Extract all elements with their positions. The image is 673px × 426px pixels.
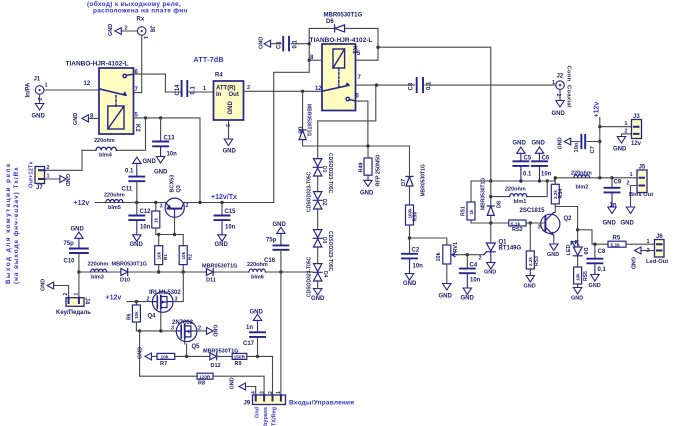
diode D12 MBR0530T1G: [210, 353, 217, 360]
svg-text:J1: J1: [34, 77, 41, 83]
connector J3 12v: [600, 127, 632, 137]
svg-text:C12: C12: [140, 209, 152, 215]
svg-text:1n: 1n: [246, 325, 253, 331]
+12v vertical wire to bus: [599, 118, 601, 178]
K2 pin7 stub: [134, 92, 142, 94]
svg-text:C9: C9: [614, 180, 622, 186]
svg-text:GND: GND: [439, 294, 453, 300]
svg-text:D10: D10: [120, 278, 130, 284]
svg-text:2SC1815: 2SC1815: [520, 208, 546, 214]
svg-text:J7: J7: [36, 185, 43, 191]
svg-text:GND: GND: [589, 283, 601, 289]
inductor blm6 220ohm: [249, 269, 265, 272]
svg-text:Q5: Q5: [192, 344, 201, 350]
thyristor Q1 BT149G: [490, 223, 492, 243]
svg-text:C2: C2: [412, 248, 420, 254]
capacitor C9 1n: [605, 178, 620, 214]
svg-text:CDSOD323-T05C: CDSOD323-T05C: [307, 171, 313, 212]
svg-text:GND: GND: [41, 279, 47, 291]
svg-text:GND: GND: [154, 170, 168, 176]
capacitor C8 0.1: [587, 244, 602, 281]
svg-text:RFP 250N50: RFP 250N50: [376, 155, 382, 187]
svg-text:GND: GND: [513, 141, 527, 147]
inductor blm1 220ohm: [491, 181, 547, 197]
svg-text:Gnd: Gnd: [255, 407, 261, 418]
svg-text:MBR0530T1G: MBR0530T1G: [202, 264, 237, 270]
svg-text:R8: R8: [198, 381, 205, 387]
svg-text:0.1: 0.1: [523, 172, 532, 178]
svg-text:1: 1: [647, 239, 650, 245]
diode D6 MBR0530T1G (flyback over coil): [309, 27, 378, 29]
svg-text:10n: 10n: [413, 264, 424, 270]
Q4 drain wire up to D10/D11 row: [173, 272, 183, 302]
svg-text:R1: R1: [163, 254, 168, 260]
capacitor C16 75p with GND above: [273, 227, 288, 272]
svg-text:C5: C5: [524, 156, 532, 162]
svg-text:75p: 75p: [266, 238, 277, 244]
D10/D11 row wire: [79, 271, 314, 273]
diode D11 MBR0530T1G: [206, 269, 213, 276]
svg-text:GND: GND: [603, 221, 617, 227]
svg-text:GND: GND: [73, 113, 79, 125]
svg-text:J3: J3: [633, 114, 640, 120]
svg-text:2: 2: [47, 165, 50, 171]
svg-text:RS2: RS2: [512, 227, 523, 233]
svg-text:0.1: 0.1: [191, 85, 197, 94]
svg-text:IRLML5302: IRLML5302: [149, 290, 181, 296]
bias bus: [471, 178, 637, 181]
RS1/D8/Q1 row: [471, 222, 545, 224]
svg-text:GND: GND: [71, 227, 85, 233]
J9 pin4 GND: [239, 383, 246, 390]
svg-text:10k: 10k: [161, 355, 169, 361]
capacitor C5 0.1 with GND above: [513, 147, 528, 181]
svg-text:CDSOD323-T05C: CDSOD323-T05C: [327, 231, 333, 272]
svg-text:C13: C13: [164, 136, 176, 142]
svg-text:2: 2: [63, 293, 69, 296]
svg-text:RS1: RS1: [461, 206, 467, 216]
resistor RS3 2.2k: [529, 223, 531, 251]
svg-text:1: 1: [552, 80, 555, 86]
resistor RS0 100k: [409, 186, 411, 205]
svg-text:D12: D12: [211, 363, 221, 369]
svg-text:J4: J4: [84, 298, 90, 305]
svg-text:расположена на плате фнч: расположена на плате фнч: [93, 7, 188, 14]
svg-text:J6: J6: [656, 234, 663, 240]
svg-text:220ohm: 220ohm: [94, 138, 115, 144]
potentiometer RV1 10k: [443, 245, 457, 264]
svg-text:GND: GND: [613, 147, 627, 153]
svg-text:RS4: RS4: [558, 189, 564, 199]
left vertical annotation text: [5, 162, 20, 284]
svg-text:R5: R5: [613, 236, 621, 242]
wire +12v to Q4: [127, 301, 152, 303]
svg-text:C14: C14: [175, 84, 181, 96]
svg-text:BCX53: BCX53: [170, 175, 176, 193]
svg-text:2: 2: [147, 297, 150, 303]
capacitor C7 10n (horizontal): [564, 135, 600, 148]
svg-text:GND: GND: [571, 296, 583, 302]
svg-text:12: 12: [84, 81, 91, 87]
svg-text:Led-Out: Led-Out: [646, 259, 668, 265]
TVS diode D2: [317, 209, 319, 229]
svg-text:+12v: +12v: [74, 200, 90, 207]
diode D5 MBR0530T1G vertical: [302, 91, 304, 146]
svg-text:blm3: blm3: [91, 275, 104, 281]
capacitor C3 0.1: [356, 78, 556, 92]
capacitor C4 10n: [460, 255, 475, 295]
+12v/Tx rail: [95, 202, 274, 204]
svg-text:C17: C17: [243, 341, 255, 347]
svg-text:2: 2: [186, 203, 189, 209]
svg-text:10n: 10n: [225, 225, 236, 231]
MOSFET Q5 2N7002: [176, 321, 197, 342]
svg-text:GND: GND: [215, 242, 229, 248]
svg-text:1: 1: [73, 293, 79, 296]
svg-text:D4: D4: [322, 271, 328, 278]
svg-text:In/PA: In/PA: [26, 82, 32, 98]
svg-text:K2: K2: [134, 124, 140, 132]
capacitor C13 10n: [153, 118, 168, 163]
svg-text:2: 2: [247, 85, 250, 91]
K1 pin8 stub: [309, 59, 322, 61]
svg-text:0.1: 0.1: [427, 81, 433, 90]
svg-text:1k: 1k: [154, 217, 159, 223]
svg-text:GND: GND: [212, 325, 218, 337]
svg-text:blm5: blm5: [108, 205, 121, 211]
svg-text:3: 3: [538, 225, 541, 231]
svg-text:2: 2: [479, 256, 482, 262]
svg-text:GND: GND: [524, 284, 536, 290]
svg-text:12: 12: [315, 86, 322, 92]
svg-text:10n: 10n: [541, 172, 552, 178]
TVS diode D1 CDSOD323-T05C: [317, 176, 319, 191]
R8 row: [140, 331, 265, 395]
svg-text:GND: GND: [621, 221, 635, 227]
svg-text:R7: R7: [160, 361, 167, 367]
svg-text:1: 1: [142, 36, 148, 39]
svg-text:K1: K1: [351, 46, 357, 54]
horizontal bus under relays: [303, 146, 410, 175]
svg-text:1: 1: [625, 121, 628, 127]
inductor blm5 220ohm: [106, 200, 123, 203]
capacitor C14 0.1: [182, 81, 214, 96]
svg-text:GND: GND: [259, 37, 265, 49]
diode D8 MBR0530T1G vertical: [490, 181, 492, 223]
R4 pin3 GND: [224, 120, 232, 146]
svg-text:3: 3: [160, 204, 163, 210]
svg-text:D3: D3: [321, 237, 327, 244]
resistor R5 5.1k: [608, 241, 626, 247]
svg-text:3: 3: [171, 326, 174, 332]
resistor R1: [158, 235, 160, 273]
svg-text:RS5: RS5: [583, 271, 589, 281]
svg-text:10k: 10k: [181, 251, 186, 259]
svg-text:C4: C4: [470, 263, 478, 269]
capacitor C12 10n: [129, 203, 144, 242]
svg-text:10n: 10n: [167, 152, 178, 158]
wire pin7 junction down to TVS stack top: [318, 85, 376, 159]
svg-text:+12v: +12v: [594, 102, 601, 118]
svg-text:Q2: Q2: [564, 216, 573, 222]
transistor Q3 BCX53 (PNP): [165, 198, 184, 217]
resistor R2: [182, 235, 184, 273]
svg-text:GND: GND: [32, 114, 46, 120]
svg-text:1k: 1k: [469, 209, 474, 215]
svg-text:TIANBO-HJR-4102-L: TIANBO-HJR-4102-L: [310, 37, 373, 44]
svg-text:ATT(R): ATT(R): [216, 86, 236, 92]
svg-text:Выход для комутации реле: Выход для комутации реле: [5, 162, 12, 284]
inductor blm2 220ohm: [574, 175, 590, 178]
RV1 bottom GND: [443, 264, 451, 290]
K2 pin5 wire to +12v rail: [134, 118, 201, 203]
svg-text:MBR0530T1G: MBR0530T1G: [324, 13, 363, 19]
svg-text:blm1: blm1: [514, 199, 527, 205]
svg-text:GND: GND: [108, 24, 114, 36]
svg-text:0.1: 0.1: [293, 39, 299, 48]
svg-text:blm4: blm4: [99, 153, 113, 159]
svg-text:10k: 10k: [157, 251, 162, 259]
TVS diode D3: [317, 247, 319, 263]
svg-text:C1: C1: [277, 41, 283, 49]
resistor R7 10k: [157, 353, 175, 359]
connector J2 Conn_Coaxial: [556, 81, 565, 107]
svg-text:LED: LED: [566, 244, 572, 255]
svg-text:TIANBO-HJR-4102-L: TIANBO-HJR-4102-L: [66, 61, 129, 68]
svg-text:10n: 10n: [140, 225, 151, 231]
svg-text:bypass: bypass: [263, 407, 269, 426]
svg-text:1n: 1n: [610, 203, 617, 209]
svg-text:J9: J9: [244, 401, 251, 407]
wire blm4 to J7: [45, 150, 83, 170]
svg-text:GND: GND: [532, 141, 546, 147]
resistor R3 (base, from rail): [155, 203, 157, 212]
inductor blm4 220ohm: [82, 118, 146, 150]
Q1 cathode GND: [487, 252, 495, 269]
svg-text:1: 1: [203, 86, 206, 92]
svg-text:D8: D8: [497, 201, 503, 208]
svg-text:C15: C15: [225, 209, 237, 215]
svg-text:GND: GND: [130, 242, 144, 248]
resistor RS2 5.1k: [509, 220, 526, 226]
svg-text:J2: J2: [557, 74, 564, 80]
svg-text:(на выходе фнч-еu2av) Tx/Rx: (на выходе фнч-еu2av) Tx/Rx: [13, 166, 20, 284]
svg-text:CDSOD323-T05C: CDSOD323-T05C: [307, 256, 313, 297]
resistor R6 10k: [135, 302, 137, 331]
svg-text:6: 6: [356, 94, 360, 100]
connector J1 In/PA coaxial: [35, 86, 44, 110]
connector J4 Key/Pedal: [54, 272, 79, 298]
svg-text:C8: C8: [598, 249, 606, 255]
svg-text:GND: GND: [552, 111, 566, 117]
connector J6 Led-Out: [655, 240, 665, 258]
svg-text:GND: GND: [547, 252, 559, 258]
transistor Q2 2SC1815 (NPN): [541, 213, 560, 236]
resistor RS1 1k: [470, 181, 472, 223]
MOSFET Q4 IRLML5302: [152, 292, 173, 313]
svg-text:Out: Out: [229, 92, 239, 98]
TVS diode D4: [317, 281, 319, 289]
svg-text:D5: D5: [297, 127, 303, 134]
svg-text:220ohm: 220ohm: [104, 193, 125, 199]
Q5 source GND right: [197, 330, 207, 332]
svg-text:1: 1: [630, 172, 633, 178]
capacitor C2 10n: [402, 238, 417, 280]
svg-text:2: 2: [627, 181, 630, 187]
svg-text:C11: C11: [122, 187, 133, 193]
resistor R8 120R: [197, 373, 213, 379]
svg-text:2: 2: [555, 94, 561, 97]
svg-text:10k: 10k: [575, 273, 580, 281]
connector J5 Bios Out: [637, 170, 647, 193]
svg-text:ATT-7dB: ATT-7dB: [194, 57, 224, 64]
svg-text:2N7002: 2N7002: [172, 320, 194, 326]
diode D7 MBR0530T1G vertical: [406, 176, 413, 186]
svg-text:GND: GND: [311, 296, 325, 302]
svg-text:RS3: RS3: [534, 256, 540, 266]
Q5 gate down to R7 row: [185, 342, 187, 357]
inductor blm3 220ohm: [91, 269, 107, 272]
svg-text:D7: D7: [401, 179, 407, 186]
J9 pin wires: [246, 272, 281, 395]
capacitor C6 10n with GND above: [532, 147, 547, 181]
svg-text:GND: GND: [558, 137, 564, 149]
Q4 gate row: [136, 312, 176, 331]
svg-text:GND: GND: [250, 310, 264, 316]
svg-text:Q4: Q4: [148, 314, 157, 320]
resistor R49 RFP 250N50: [364, 146, 372, 186]
svg-text:220ohm: 220ohm: [505, 187, 526, 193]
svg-text:D1: D1: [321, 166, 327, 173]
svg-text:Out+12Tx: Out+12Tx: [29, 161, 35, 188]
svg-text:blm2: blm2: [576, 185, 589, 191]
svg-text:D11: D11: [206, 278, 216, 284]
wire C2 junction to RV1: [410, 238, 447, 245]
svg-text:0.1: 0.1: [125, 169, 134, 175]
svg-text:C3: C3: [409, 82, 415, 90]
wire C1 junction up/down to K1 pin8 and +12vTx riser: [274, 28, 310, 202]
LED D9: [571, 241, 582, 256]
resistor R9 150R: [232, 353, 247, 359]
capacitor C10 75p with GND above: [70, 232, 88, 272]
svg-text:Conn_Coaxial: Conn_Coaxial: [566, 66, 572, 108]
capacitor C11 0.1 with GND above: [129, 157, 144, 202]
svg-text:150R: 150R: [234, 355, 246, 361]
node row under Q3: [156, 234, 183, 236]
capacitor C15 10n: [215, 203, 230, 242]
svg-text:D9: D9: [582, 248, 588, 255]
svg-text:Входы/Управления: Входы/Управления: [289, 400, 354, 407]
svg-text:GND: GND: [228, 101, 234, 115]
svg-text:0.1: 0.1: [598, 267, 607, 273]
svg-text:D2: D2: [321, 199, 327, 206]
svg-text:220ohm: 220ohm: [88, 261, 109, 267]
connector J8 Rx coaxial: [115, 27, 146, 36]
TVS stack GND: [314, 289, 322, 296]
svg-text:C6: C6: [542, 156, 550, 162]
svg-text:CDSOD323-T05C: CDSOD323-T05C: [327, 153, 333, 194]
svg-text:GND: GND: [484, 270, 496, 276]
wire Rx down to relay pin7: [141, 35, 143, 92]
svg-text:220ohm: 220ohm: [571, 171, 592, 177]
wire J1 to relay K2 pin 12: [44, 89, 99, 91]
connector J9: [253, 395, 286, 405]
svg-text:GND: GND: [630, 257, 636, 269]
svg-text:R9: R9: [235, 361, 242, 367]
note: bypass to output relay (Russian annotation): [87, 0, 188, 14]
svg-text:R2: R2: [188, 254, 193, 260]
wire R4 out to relay K1 pin12: [244, 90, 323, 92]
svg-text:10n: 10n: [574, 142, 580, 152]
svg-text:MBR0530T1G: MBR0530T1G: [306, 104, 312, 136]
K2 pin6 wire to C14: [134, 74, 181, 92]
svg-text:2: 2: [647, 248, 650, 254]
svg-text:2: 2: [36, 98, 42, 101]
svg-text:2: 2: [625, 129, 628, 135]
svg-text:3: 3: [224, 124, 230, 127]
svg-text:D6: D6: [326, 19, 334, 25]
svg-text:+12v/Tx: +12v/Tx: [211, 194, 237, 201]
svg-text:GND: GND: [223, 149, 237, 155]
svg-text:J8: J8: [149, 26, 155, 33]
svg-text:RS0: RS0: [413, 212, 419, 222]
svg-text:TX/Reg: TX/Reg: [272, 407, 278, 426]
svg-text:7: 7: [358, 75, 362, 81]
svg-text:GND: GND: [230, 377, 236, 389]
svg-text:1: 1: [45, 83, 48, 89]
diode D10 MBR0530T1G: [121, 269, 128, 276]
svg-text:GND: GND: [143, 159, 157, 165]
svg-text:Bios Out: Bios Out: [629, 192, 653, 198]
K1 pin5 wire over to right and down: [356, 28, 491, 181]
svg-text:MBR0530T1G: MBR0530T1G: [481, 178, 487, 210]
svg-text:C7: C7: [590, 146, 596, 153]
svg-text:75p: 75p: [64, 241, 75, 247]
svg-text:blm6: blm6: [251, 275, 264, 281]
svg-text:Q3: Q3: [176, 185, 182, 192]
Q2 collector node wire: [555, 207, 577, 247]
svg-text:R49: R49: [359, 162, 365, 172]
svg-text:Key/Педаль: Key/Педаль: [56, 310, 91, 316]
connector J7 Out+12Tx: [35, 167, 45, 184]
svg-text:3: 3: [259, 391, 265, 394]
svg-text:+12v: +12v: [106, 295, 122, 302]
svg-text:In: In: [216, 92, 222, 98]
svg-text:2: 2: [125, 26, 128, 32]
K1 pin6 stub down across bus to R49: [356, 101, 368, 146]
svg-text:RV1: RV1: [453, 242, 459, 253]
resistor RS5 10k: [577, 256, 579, 288]
svg-text:GND: GND: [273, 222, 287, 228]
Q2 emitter GND: [550, 244, 558, 251]
svg-text:GND: GND: [360, 191, 374, 197]
K2 pin8 GND left: [82, 115, 99, 122]
svg-text:GND: GND: [403, 281, 417, 287]
svg-text:BT149G: BT149G: [499, 246, 522, 252]
svg-text:R6: R6: [127, 313, 133, 320]
resistor RS4 2.2k: [554, 178, 556, 207]
svg-text:GND: GND: [461, 296, 475, 302]
branch to R5 row: [578, 230, 608, 244]
svg-text:MBR0530T1G: MBR0530T1G: [112, 261, 147, 267]
svg-text:5.1k: 5.1k: [611, 243, 621, 249]
capacitor C1 0.1: [264, 37, 309, 51]
svg-text:10k: 10k: [436, 251, 442, 261]
R7 row with GND left: [152, 355, 210, 357]
svg-text:C10: C10: [64, 259, 76, 265]
svg-text:10n: 10n: [470, 278, 481, 284]
svg-text:12v: 12v: [631, 141, 642, 147]
